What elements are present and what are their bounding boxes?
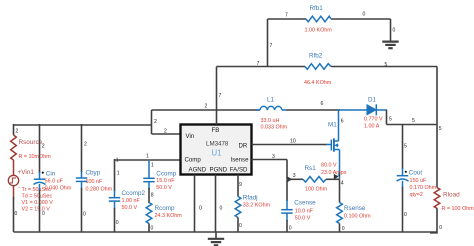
wire Rfb1 rail xyxy=(268,18,391,20)
resistor Rs1 xyxy=(287,178,303,180)
svg-text:2: 2 xyxy=(42,144,45,150)
svg-text:V2 = 15.0 V: V2 = 15.0 V xyxy=(22,207,51,213)
svg-text:1: 1 xyxy=(146,154,149,160)
svg-text:1: 1 xyxy=(117,171,120,177)
wire Isense pin xyxy=(252,160,288,180)
svg-text:3: 3 xyxy=(272,154,275,160)
svg-text:0.033 Ohm: 0.033 Ohm xyxy=(261,125,288,131)
svg-text:7: 7 xyxy=(270,43,273,49)
svg-text:0: 0 xyxy=(363,12,366,18)
svg-text:R = 100 Ohm: R = 100 Ohm xyxy=(442,206,474,212)
svg-text:0: 0 xyxy=(83,212,86,218)
resistor Rsense xyxy=(339,179,341,202)
ground bottom xyxy=(215,232,217,239)
svg-text:R = 10mOhm: R = 10mOhm xyxy=(19,154,52,160)
capacitor Cbyp xyxy=(81,124,83,172)
wire PGND pin xyxy=(215,175,217,233)
svg-text:+Vin1: +Vin1 xyxy=(18,169,35,176)
svg-text:5: 5 xyxy=(439,126,442,132)
svg-text:10: 10 xyxy=(290,139,296,145)
svg-text:50.0 V: 50.0 V xyxy=(156,185,172,191)
svg-text:24.3 KOhm: 24.3 KOhm xyxy=(155,213,183,219)
svg-text:D1: D1 xyxy=(368,97,377,104)
svg-text:7: 7 xyxy=(219,93,222,99)
svg-text:0.280 Ohm: 0.280 Ohm xyxy=(86,186,113,192)
wire L1 rail right (node 6) xyxy=(286,109,340,111)
ground top xyxy=(382,42,398,49)
svg-text:L1: L1 xyxy=(267,97,275,104)
svg-text:Td = 50uSec: Td = 50uSec xyxy=(22,194,53,200)
svg-text:2: 2 xyxy=(205,104,208,110)
svg-text:33.2 KOhm: 33.2 KOhm xyxy=(243,202,271,208)
svg-text:1.00 nF: 1.00 nF xyxy=(122,198,141,204)
svg-text:Rcomp: Rcomp xyxy=(155,205,175,212)
svg-text:0.770 V: 0.770 V xyxy=(364,116,383,122)
wire FA/SD pin xyxy=(237,175,239,197)
svg-text:Ccomp: Ccomp xyxy=(156,170,176,177)
M1 source lead xyxy=(339,150,341,180)
M1 drain lead xyxy=(338,110,340,141)
wire Rfb1 column xyxy=(267,19,269,67)
svg-text:0.100 Ohm: 0.100 Ohm xyxy=(344,214,371,220)
svg-text:0: 0 xyxy=(199,206,202,212)
wire input corner column xyxy=(151,110,153,134)
svg-text:0.170 Ohm: 0.170 Ohm xyxy=(410,185,437,191)
svg-text:0: 0 xyxy=(342,226,345,232)
svg-text:Rfb1: Rfb1 xyxy=(310,5,324,12)
svg-text:Rs1: Rs1 xyxy=(305,165,317,172)
svg-text:Rfb2: Rfb2 xyxy=(309,53,323,60)
svg-text:0: 0 xyxy=(439,225,442,231)
svg-text:Rfadj: Rfadj xyxy=(243,195,258,202)
svg-text:50.0 V: 50.0 V xyxy=(122,205,138,211)
svg-text:Ccomp2: Ccomp2 xyxy=(122,190,146,197)
capacitor Ccomp2 xyxy=(114,159,116,191)
svg-text:1: 1 xyxy=(151,163,154,169)
svg-text:7: 7 xyxy=(285,13,288,19)
svg-text:33.0 uH: 33.0 uH xyxy=(261,118,280,124)
svg-text:AGND: AGND xyxy=(189,167,207,174)
svg-text:U1: U1 xyxy=(212,148,222,157)
svg-text:7: 7 xyxy=(257,61,260,67)
wire top input rail xyxy=(14,124,152,126)
wire output step xyxy=(387,110,438,125)
svg-text:FA/SD: FA/SD xyxy=(230,167,248,174)
op-amp U1 LM3478 xyxy=(181,125,252,175)
wire Rload to rail xyxy=(430,208,437,233)
svg-text:M1: M1 xyxy=(328,122,337,129)
svg-text:Cin: Cin xyxy=(46,170,56,177)
svg-text:1: 1 xyxy=(116,158,119,164)
svg-text:6: 6 xyxy=(321,101,324,107)
svg-text:-: - xyxy=(18,184,20,191)
svg-text:2: 2 xyxy=(16,129,19,135)
svg-text:qty=2: qty=2 xyxy=(410,192,423,198)
svg-text:5: 5 xyxy=(404,144,407,150)
svg-text:15.0 nF: 15.0 nF xyxy=(156,178,175,184)
wire L1 rail left xyxy=(152,109,261,111)
svg-text:LM3478: LM3478 xyxy=(206,140,229,147)
junction arrow node 4 xyxy=(334,174,339,179)
svg-text:100 Ohm: 100 Ohm xyxy=(305,187,328,193)
wire AGND pin xyxy=(194,175,196,233)
svg-text:Vin: Vin xyxy=(186,133,195,140)
wire Rsource to Vin1 xyxy=(13,160,15,175)
capacitor Cin xyxy=(39,124,41,173)
svg-text:Cout: Cout xyxy=(409,170,423,177)
transistor M1 xyxy=(331,138,339,151)
svg-text:2: 2 xyxy=(84,142,87,148)
diode D1 cathode lead xyxy=(377,109,387,111)
resistor Rfb2 xyxy=(305,64,331,70)
svg-text:3: 3 xyxy=(293,173,296,179)
svg-text:46.4 KOhm: 46.4 KOhm xyxy=(304,80,332,86)
svg-text:Cbyp: Cbyp xyxy=(86,169,101,176)
svg-text:Isense: Isense xyxy=(231,157,250,164)
svg-text:0: 0 xyxy=(289,226,292,232)
svg-text:Csense: Csense xyxy=(294,200,316,207)
svg-text:PGND: PGND xyxy=(210,167,228,174)
svg-text:56.0 uF: 56.0 uF xyxy=(45,179,64,185)
resistor Rfb1 xyxy=(306,16,331,22)
capacitor Cout xyxy=(402,125,404,170)
svg-text:8: 8 xyxy=(151,193,154,199)
svg-text:80.0 V: 80.0 V xyxy=(321,163,337,169)
capacitor Csense xyxy=(286,179,288,201)
wire bottom ground rail xyxy=(14,231,438,233)
wire Rfb2 rail xyxy=(217,66,438,68)
svg-text:100 nF: 100 nF xyxy=(86,179,103,185)
svg-text:1.00 A: 1.00 A xyxy=(364,123,380,129)
svg-text:5: 5 xyxy=(389,117,392,123)
svg-text:V1 = 0.000 V: V1 = 0.000 V xyxy=(22,200,54,206)
svg-text:5: 5 xyxy=(412,118,415,124)
svg-text:4: 4 xyxy=(338,173,341,179)
svg-text:4: 4 xyxy=(341,181,344,187)
svg-text:0.040 Ohm: 0.040 Ohm xyxy=(45,186,72,192)
wire FB column xyxy=(216,67,218,125)
wire right output column xyxy=(436,67,438,188)
resistor Rcomp xyxy=(146,203,152,224)
wire DR pin to gate xyxy=(252,144,328,146)
svg-text:2: 2 xyxy=(164,129,167,135)
wire Vin pin xyxy=(152,133,181,135)
inductor L1 xyxy=(256,106,286,110)
svg-text:DR: DR xyxy=(239,143,248,150)
svg-text:1.00 KOhm: 1.00 KOhm xyxy=(305,28,333,34)
svg-text:5: 5 xyxy=(385,62,388,68)
svg-text:150 uF: 150 uF xyxy=(410,178,427,184)
svg-text:9: 9 xyxy=(239,182,242,188)
svg-text:Rload: Rload xyxy=(443,192,460,199)
svg-text:0: 0 xyxy=(15,211,18,217)
svg-text:50.0 V: 50.0 V xyxy=(295,215,311,221)
svg-text:0: 0 xyxy=(404,212,407,218)
svg-text:10.0 nF: 10.0 nF xyxy=(295,209,314,215)
svg-text:0: 0 xyxy=(42,211,45,217)
svg-text:0: 0 xyxy=(239,223,242,229)
wire Comp pin xyxy=(115,159,181,161)
source Vin1 xyxy=(8,175,18,185)
svg-text:0: 0 xyxy=(393,28,396,34)
capacitor Ccomp xyxy=(148,161,150,179)
diode D1 xyxy=(367,105,376,115)
svg-text:0: 0 xyxy=(220,206,223,212)
svg-text:Comp: Comp xyxy=(185,157,202,164)
svg-text:FB: FB xyxy=(212,127,220,134)
svg-text:6: 6 xyxy=(341,119,344,125)
wire Vin1 to bottom rail xyxy=(13,186,15,198)
svg-text:Rsense: Rsense xyxy=(344,205,366,212)
wire left column top xyxy=(13,124,15,135)
resistor Rsource xyxy=(11,135,17,160)
resistor Rfadj xyxy=(235,197,241,218)
diode D1 lead xyxy=(339,109,368,111)
junction arrow node 3 xyxy=(288,177,293,182)
svg-text:0: 0 xyxy=(151,226,154,232)
wire to top ground xyxy=(390,19,392,42)
resistor Rload xyxy=(434,188,440,209)
svg-text:0: 0 xyxy=(116,220,119,226)
svg-text:2: 2 xyxy=(154,119,157,125)
